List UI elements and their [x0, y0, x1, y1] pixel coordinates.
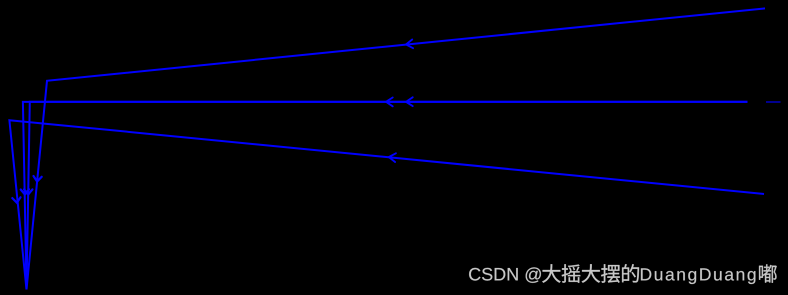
- arrowhead ray3 vertical: [21, 189, 29, 194]
- wire ray2 path (right horizontal to focus): [27, 102, 748, 290]
- watermark glyph cjk-da-2: [582, 264, 600, 283]
- arrowhead ray4 diagonal: [389, 153, 396, 162]
- watermark glyph latin-duang-7-a: [725, 271, 734, 281]
- arrowhead ray4 vertical: [12, 197, 20, 203]
- watermark glyph latin-duang-8-n: [737, 271, 744, 280]
- watermark glyph latin-duang-9-g: [748, 271, 756, 284]
- watermark glyph cjk-da-0: [542, 264, 560, 283]
- watermark glyph latin-csdn-2-D: [495, 268, 506, 280]
- watermark glyph latin-duang-4-g: [688, 271, 696, 284]
- wire stub segment right edge: [766, 101, 781, 103]
- watermark glyph cjk-yao-1: [562, 264, 581, 283]
- watermark glyph cjk-du-5: [759, 264, 777, 282]
- watermark glyph latin-csdn-0-C: [469, 268, 480, 281]
- watermark glyph latin-duang-0-D: [641, 268, 651, 280]
- wire ray4 path (bottom-right to focus): [9, 120, 764, 289]
- wire ray3 path (right horizontal to focus, second): [23, 102, 748, 290]
- watermark glyph latin-duang-6-u: [714, 271, 721, 280]
- arrowhead ray2 vertical: [24, 189, 32, 194]
- arrowhead ray3 horizontal: [386, 98, 393, 107]
- watermark glyph latin-duang-3-n: [677, 271, 684, 280]
- watermark glyph cjk-de-4: [622, 264, 639, 282]
- watermark glyph latin-duang-2-a: [666, 271, 675, 281]
- watermark glyph cjk-bai-3: [601, 264, 620, 283]
- watermark glyph latin-csdn-4-at: [526, 267, 541, 283]
- arrowhead ray1 diagonal: [406, 40, 413, 49]
- arrowhead ray2 horizontal: [406, 97, 413, 106]
- watermark glyph latin-duang-1-u: [655, 271, 662, 280]
- arrowhead ray1 vertical: [34, 176, 42, 182]
- watermark glyph latin-duang-5-D: [700, 268, 710, 280]
- watermark glyph latin-csdn-1-S: [482, 268, 492, 281]
- watermark glyph latin-csdn-3-N: [508, 268, 518, 280]
